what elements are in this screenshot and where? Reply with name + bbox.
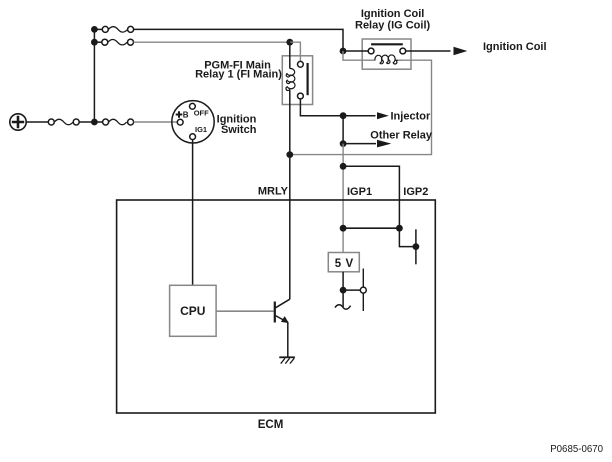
CPU box: [170, 285, 217, 336]
node other relay branch: [340, 140, 347, 147]
svg-text:CPU: CPU: [180, 304, 205, 318]
wire battery to fuse F3: [26, 121, 48, 123]
fuse F4: [103, 119, 134, 125]
svg-text:OFF: OFF: [194, 108, 209, 117]
wire node to open terminal: [343, 289, 360, 291]
node stub: [413, 243, 420, 250]
wire emitter to ground: [287, 322, 289, 357]
arrow to injector: [377, 112, 389, 119]
label +B: [176, 110, 189, 119]
relay U1 box PGM-FI Main: [282, 56, 312, 105]
stub bar: [415, 229, 417, 264]
arrow to ignition coil: [454, 47, 468, 55]
relay U1 coil: [286, 69, 295, 91]
wire fuse F4 to ignition switch +B: [134, 121, 178, 123]
fuse F1: [102, 26, 133, 32]
node MRLY gray return junction: [286, 151, 293, 158]
relay U1 contact bar: [307, 63, 309, 95]
svg-text:B: B: [183, 110, 189, 119]
node fuse row 1: [91, 26, 98, 33]
node IGP2 internal: [396, 225, 403, 232]
node IG coil relay feed: [340, 48, 347, 55]
svg-text:IG1: IG1: [195, 125, 207, 134]
node 5V output: [340, 287, 347, 294]
relay U2 coil: [375, 55, 402, 64]
wire IGP1 gray vertical: [342, 144, 344, 253]
svg-text:P0685-0670: P0685-0670: [550, 444, 603, 455]
relay U2 contact terminal right: [400, 48, 406, 54]
wire node to fuse F4: [94, 121, 102, 123]
relay U2 box Ignition Coil Relay: [362, 39, 411, 69]
wire node to fuse F2: [94, 41, 101, 43]
ignition switch terminal OFF: [190, 103, 196, 109]
svg-text:IGP2: IGP2: [403, 186, 428, 198]
wire relay U2 coil return gray: [293, 60, 432, 154]
ECM box: [117, 200, 436, 413]
relay U2 contact terminal left: [368, 48, 374, 54]
svg-text:Ignition Coil: Ignition Coil: [483, 41, 547, 53]
wire IGP1-IGP2 tie: [343, 227, 399, 229]
ignition switch terminal IG1: [190, 134, 196, 140]
fuse F2: [102, 39, 134, 45]
wire fuse F1 to IG coil relay node: [134, 29, 343, 51]
label relay U2 title: [355, 8, 431, 32]
svg-text:Ignition Coil: Ignition Coil: [361, 8, 425, 20]
label ignition switch: [217, 113, 257, 135]
sensor line vertical: [362, 269, 364, 312]
svg-text:Relay (IG Coil): Relay (IG Coil): [355, 20, 431, 32]
wire riser x94: [93, 29, 95, 122]
svg-text:Injector: Injector: [391, 110, 431, 122]
wire IG1 to CPU: [192, 140, 194, 286]
node IGP2 branch: [340, 163, 347, 170]
svg-text:Switch: Switch: [221, 124, 257, 136]
junction node rail: [91, 119, 98, 126]
node injector branch: [340, 112, 347, 119]
svg-text:MRLY: MRLY: [258, 186, 289, 198]
label relay U1: [195, 59, 282, 80]
svg-text:5 V: 5 V: [335, 258, 354, 270]
node FI main relay feed: [286, 39, 293, 46]
transistor Q1: [275, 299, 290, 323]
wire node to relay contact terminal: [290, 42, 301, 61]
svg-text:ECM: ECM: [258, 419, 284, 431]
wire injector node to other relay node: [342, 116, 344, 144]
continuation squiggle: [335, 305, 351, 309]
ground: [279, 357, 295, 363]
wire relay U2 to ignition coil arrow: [406, 50, 451, 52]
relay U1 contact terminal top: [298, 61, 304, 67]
wire relay U1 contact to injector node: [300, 99, 343, 116]
relay U2 contact bar: [371, 43, 403, 45]
arrow to other relay: [377, 140, 391, 148]
battery B1: [10, 114, 26, 130]
relay U1 contact terminal bottom: [298, 93, 304, 99]
svg-text:IGP1: IGP1: [347, 186, 372, 198]
wire to other relay arrow: [343, 143, 376, 145]
wire node to fuse F1: [94, 28, 102, 30]
wire fuse F2 to FI main relay node: [134, 41, 290, 43]
wire CPU to transistor base: [216, 310, 274, 312]
wire 5V output: [342, 272, 344, 290]
regulator 5V box: [328, 253, 359, 272]
wire node to relay U2 coil: [343, 51, 376, 60]
ignition switch SW1 body: [172, 101, 214, 143]
fuse F3: [48, 119, 79, 125]
svg-text:Other Relay: Other Relay: [370, 129, 433, 141]
relay U1 coil feed wire: [289, 42, 291, 68]
wire node to relay U2 contact: [343, 50, 368, 52]
wire IGP2 branch: [343, 166, 399, 228]
ignition switch terminal +B: [177, 119, 183, 125]
wire relay U1 coil to MRLY spine: [289, 90, 291, 299]
svg-text:Relay 1 (FI Main): Relay 1 (FI Main): [195, 68, 282, 80]
wire IGP2 to stub: [399, 228, 416, 246]
wire 5V continues: [342, 290, 344, 307]
wire fuse F3 to node: [79, 121, 94, 123]
wire to injector arrow: [343, 115, 375, 117]
node fuse row 2: [91, 39, 98, 46]
open terminal: [360, 287, 366, 293]
node IGP1 internal: [340, 225, 347, 232]
